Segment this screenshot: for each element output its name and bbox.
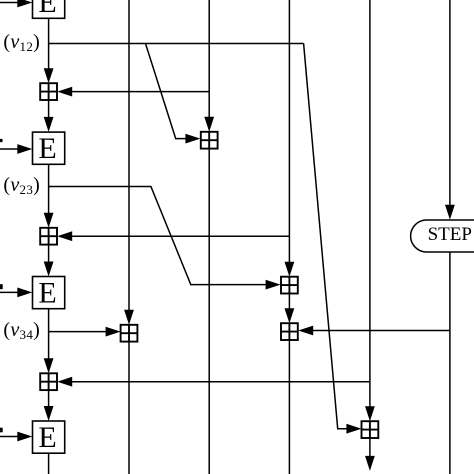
wire: feed into X4b from column 6 <box>298 326 450 336</box>
svg-text:(v34): (v34) <box>3 319 40 342</box>
wire: v34 down into XOR X5 with arrow <box>44 332 54 374</box>
wire: column 4 vertical from top into XOR X4a with arrow <box>285 0 295 277</box>
block cipher E2 <box>33 132 65 165</box>
wire: X2 output down to bottom edge <box>208 149 210 474</box>
block cipher E4 <box>33 421 65 454</box>
wire: diagonal from v12 bus into XOR X2 with arrow <box>146 44 201 144</box>
xor X4b <box>281 323 298 340</box>
wire: v34 horizontal into XOR Xb with arrow <box>49 327 121 337</box>
svg-text:E: E <box>38 132 56 165</box>
xor X1 <box>40 83 57 100</box>
STEP function box <box>411 220 474 252</box>
svg-text:E: E <box>38 421 56 454</box>
wire: input arrow into E1 <box>0 0 32 7</box>
wire: Xb output down to bottom edge <box>128 342 130 474</box>
wire: X1 output down into E2 with arrow <box>44 100 54 132</box>
wire: feed into X5 from column 5 <box>57 377 370 387</box>
wire: E4 output down to bottom edge <box>48 453 50 474</box>
cropped input label at E4 <box>0 428 3 433</box>
xor X4c <box>362 421 379 438</box>
wire: input arrow into E2 <box>0 144 32 154</box>
wire: input arrow into E3 <box>0 288 32 298</box>
svg-text:E: E <box>38 0 56 19</box>
wire: STEP output down to bottom edge <box>449 252 451 474</box>
wire: X4b output down to bottom edge <box>288 340 290 474</box>
wire: input arrow into E4 <box>0 432 32 442</box>
xor X5 <box>40 373 57 390</box>
wire: X3 output down into E3 with arrow <box>44 245 54 277</box>
xor Xb <box>121 325 138 342</box>
wire: column 2 vertical from top into XOR Xb with arrow <box>124 0 134 325</box>
wire: X4a output down into X4b with arrow <box>285 294 295 324</box>
wire: X5 output down into E4 with arrow <box>44 390 54 421</box>
svg-text:STEP: STEP <box>428 224 472 245</box>
wire: E3 output down to node v34 <box>48 309 50 332</box>
wire: v12 horizontal bus to the right <box>49 43 304 45</box>
svg-text:E: E <box>38 276 56 309</box>
xor X4a <box>281 277 298 294</box>
wire: long diagonal from v12 bus into XOR X4c with arrow <box>304 44 362 434</box>
wire: column 3 vertical from top into XOR X2 with arrow <box>204 0 214 132</box>
wire: v12 down into XOR X1 with arrow <box>44 44 54 84</box>
svg-text:(v23): (v23) <box>3 174 40 197</box>
wire: v23 horizontal then diagonal down to XOR X4a <box>49 187 281 290</box>
wire: E2 output down to node v23 <box>48 164 50 186</box>
wire: v23 down into XOR X3 with arrow <box>44 187 54 228</box>
xor X2 <box>201 132 218 149</box>
xor X3 <box>40 228 57 245</box>
svg-text:(v12): (v12) <box>3 31 40 54</box>
wire: X4c output arrow down <box>365 438 375 471</box>
wire: feed into X1 from column 3 <box>57 87 209 97</box>
wire: E1 output down to node v12 <box>48 18 50 43</box>
block cipher E3 <box>33 276 65 309</box>
cropped input label at E2 <box>0 139 3 142</box>
wire: feed into X3 from column 4 <box>57 231 289 241</box>
wire: column 6 vertical from top into STEP with arrow <box>445 0 455 220</box>
block cipher E1 <box>33 0 65 19</box>
cropped input label at E3 <box>0 284 3 289</box>
wire: column 5 vertical from top into XOR X4c with arrow <box>365 0 375 421</box>
